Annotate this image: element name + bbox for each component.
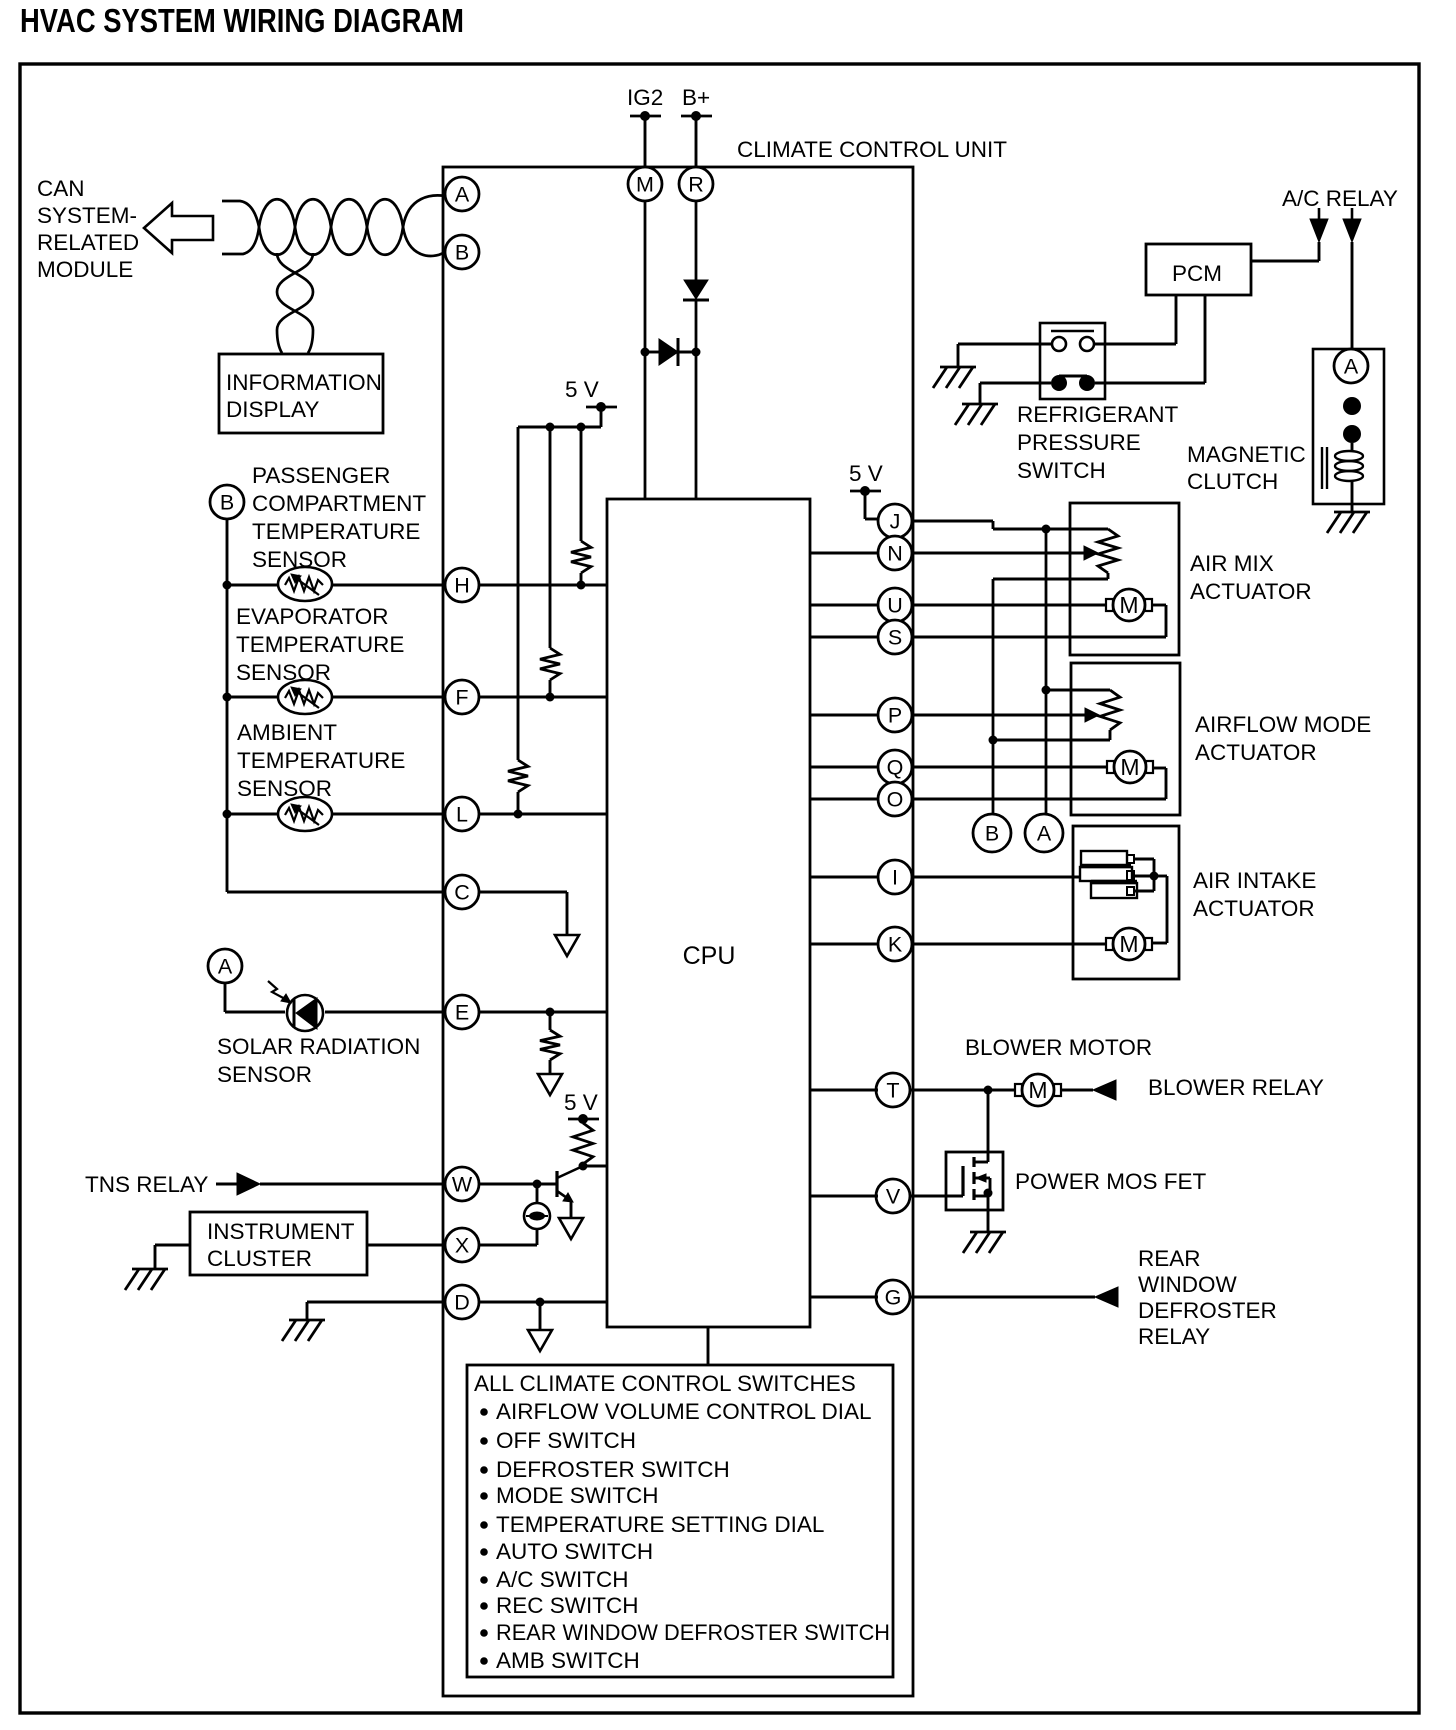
node collector xyxy=(579,1162,588,1171)
wire O to motor xyxy=(911,768,1166,799)
terminal 5V J xyxy=(850,486,881,496)
label INSTRUMENT CLUSTER xyxy=(207,1219,355,1271)
svg-text:B: B xyxy=(985,822,999,846)
svg-text:OFF SWITCH: OFF SWITCH xyxy=(496,1428,636,1453)
svg-text:D: D xyxy=(454,1291,470,1315)
wire sensor common xyxy=(226,519,229,892)
resistor pullup L xyxy=(508,760,528,792)
label MAGNETIC CLUTCH xyxy=(1187,442,1306,494)
wire B+ to R xyxy=(695,116,698,167)
label CPU xyxy=(683,942,736,970)
svg-text:PCM: PCM xyxy=(1172,261,1222,286)
label EVAPORATOR TEMPERATURE SENSOR xyxy=(236,604,404,685)
pin A can xyxy=(445,177,479,211)
arrow from blower relay xyxy=(1093,1080,1116,1100)
wire W to base xyxy=(479,1183,557,1186)
wire S to motor xyxy=(911,605,1166,637)
wire G to defroster relay xyxy=(911,1296,1095,1299)
pin A solar xyxy=(208,949,242,983)
svg-text:HVAC SYSTEM WIRING DIAGRAM: HVAC SYSTEM WIRING DIAGRAM xyxy=(20,2,464,39)
wire PCM to switch NC xyxy=(1204,295,1207,383)
airflow mode actuator box xyxy=(1071,663,1180,815)
switch list item DEFROSTER SWITCH xyxy=(480,1457,730,1482)
wire TNS to W xyxy=(260,1183,445,1186)
svg-text:TEMPERATURE: TEMPERATURE xyxy=(252,519,420,544)
wire A sense line xyxy=(1045,529,1048,814)
wire 5V to J xyxy=(865,491,878,519)
svg-text:B: B xyxy=(220,491,234,515)
wire Q to motor xyxy=(911,766,1107,769)
svg-text:BLOWER MOTOR: BLOWER MOTOR xyxy=(965,1035,1152,1060)
svg-text:C: C xyxy=(454,881,470,905)
svg-text:TEMPERATURE: TEMPERATURE xyxy=(237,748,405,773)
switch list item REC SWITCH xyxy=(480,1593,638,1618)
svg-text:E: E xyxy=(455,1001,469,1025)
wire pullup L to line xyxy=(514,792,523,819)
wire P wiper xyxy=(911,714,1086,717)
label AIRFLOW MODE ACTUATOR xyxy=(1195,712,1371,765)
svg-text:PRESSURE: PRESSURE xyxy=(1017,430,1141,455)
label BLOWER RELAY xyxy=(1148,1075,1324,1100)
label PCM xyxy=(1172,261,1222,286)
switch list item AIRFLOW VOLUME CONTROL DIAL xyxy=(480,1399,871,1424)
wire CPU to switches box xyxy=(707,1327,710,1365)
svg-text:M: M xyxy=(1119,592,1138,618)
pin V xyxy=(876,1179,910,1213)
pin A magnetic clutch xyxy=(1334,349,1368,383)
pin D xyxy=(445,1285,479,1319)
limit switch stack xyxy=(1080,851,1137,898)
svg-text:B: B xyxy=(455,241,469,265)
label IG2 xyxy=(627,85,663,110)
diode D1 down xyxy=(683,280,709,300)
switch list item REAR WINDOW DEFROSTER SWITCH xyxy=(480,1620,890,1645)
ground pressure switch 1 xyxy=(933,367,976,388)
svg-text:TEMPERATURE: TEMPERATURE xyxy=(236,632,404,657)
svg-text:POWER MOS FET: POWER MOS FET xyxy=(1015,1169,1207,1194)
switch list item AMB SWITCH xyxy=(480,1648,640,1673)
climate control switches box xyxy=(467,1365,893,1677)
label 5V transistor xyxy=(564,1090,598,1115)
ground instrument cluster xyxy=(125,1269,168,1290)
svg-text:INSTRUMENT: INSTRUMENT xyxy=(207,1219,355,1244)
wire CPU to V xyxy=(810,1195,878,1198)
potentiometer air mix xyxy=(1098,529,1118,579)
svg-text:J: J xyxy=(890,510,901,534)
resistor pullup F xyxy=(540,648,560,680)
pin F xyxy=(445,680,479,714)
switch list item A/C SWITCH xyxy=(480,1567,628,1592)
wire relay to PCM xyxy=(1251,242,1319,261)
label TNS RELAY xyxy=(85,1172,208,1197)
svg-text:SYSTEM-: SYSTEM- xyxy=(37,203,137,228)
ground pressure switch 2 xyxy=(955,404,998,425)
label INFORMATION DISPLAY xyxy=(226,370,382,422)
svg-text:M: M xyxy=(1028,1077,1047,1103)
wire airflow pot bottom xyxy=(993,739,1110,742)
svg-text:X: X xyxy=(455,1234,469,1258)
twisted pair to display xyxy=(277,253,313,353)
arrow P wiper xyxy=(1085,708,1099,722)
svg-text:B+: B+ xyxy=(682,85,710,110)
svg-text:REAR: REAR xyxy=(1138,1246,1201,1271)
wire J to air mix pot xyxy=(911,521,1108,529)
wire E pulldown to ground xyxy=(549,1060,552,1074)
thermistor ambient xyxy=(278,797,332,831)
svg-text:CLIMATE CONTROL UNIT: CLIMATE CONTROL UNIT xyxy=(737,137,1007,162)
svg-text:L: L xyxy=(456,803,468,827)
air intake actuator box xyxy=(1073,826,1179,979)
wire evaporator sensor to F xyxy=(227,696,445,699)
arrow from TNS relay xyxy=(216,1173,260,1195)
pin B actuator xyxy=(973,814,1011,852)
svg-text:A: A xyxy=(1344,355,1359,379)
svg-text:AMB SWITCH: AMB SWITCH xyxy=(496,1648,640,1673)
motor M air intake xyxy=(1106,928,1152,960)
pin B can xyxy=(445,235,479,269)
wire M line xyxy=(644,201,647,499)
air mix actuator box xyxy=(1070,503,1179,655)
svg-text:ACTUATOR: ACTUATOR xyxy=(1193,896,1315,921)
node M-diode junction xyxy=(641,348,650,357)
wire switch bottom left xyxy=(980,383,1051,404)
pin Q xyxy=(878,750,912,784)
node A-line top xyxy=(1042,525,1051,534)
wire D to CPU xyxy=(479,1301,607,1304)
svg-text:TEMPERATURE SETTING DIAL: TEMPERATURE SETTING DIAL xyxy=(496,1512,824,1537)
wire common to C xyxy=(227,891,445,894)
wire CPU to P xyxy=(810,714,878,717)
wire switch bottom right xyxy=(1095,382,1205,385)
svg-text:SENSOR: SENSOR xyxy=(237,776,332,801)
wire T to blower motor xyxy=(911,1089,1014,1092)
svg-text:I: I xyxy=(892,866,898,890)
wire CPU to N xyxy=(810,552,878,555)
label SOLAR RADIATION SENSOR xyxy=(217,1034,420,1087)
diode D2 right xyxy=(659,338,678,366)
ground D triangle xyxy=(528,1330,552,1351)
svg-text:AIRFLOW MODE: AIRFLOW MODE xyxy=(1195,712,1371,737)
wire A branch to pot xyxy=(1046,689,1110,692)
svg-text:W: W xyxy=(452,1173,473,1197)
svg-text:MODULE: MODULE xyxy=(37,257,133,282)
wire blower to relay xyxy=(1061,1089,1093,1092)
svg-text:DISPLAY: DISPLAY xyxy=(226,397,319,422)
svg-text:INFORMATION: INFORMATION xyxy=(226,370,382,395)
svg-text:CLUTCH: CLUTCH xyxy=(1187,469,1278,494)
node E pulldown xyxy=(546,1008,555,1017)
pin C xyxy=(445,875,479,909)
wire E to CPU xyxy=(479,1011,607,1014)
wire diode to CPU xyxy=(695,300,698,499)
svg-text:REFRIGERANT: REFRIGERANT xyxy=(1017,402,1179,427)
pin I xyxy=(878,860,912,894)
arrow A/C relay left xyxy=(1310,208,1328,242)
svg-text:M: M xyxy=(636,173,654,197)
wire CPU to Q xyxy=(810,766,878,769)
arrow from defroster relay xyxy=(1095,1287,1118,1307)
switch list item MODE SWITCH xyxy=(480,1483,658,1508)
wire 5V rail xyxy=(518,407,601,427)
svg-text:A: A xyxy=(218,955,233,979)
pin O xyxy=(878,782,912,816)
wire CPU to I xyxy=(810,876,878,879)
svg-text:EVAPORATOR: EVAPORATOR xyxy=(236,604,389,629)
wire stack top contact xyxy=(1134,859,1154,891)
svg-text:V: V xyxy=(886,1185,901,1209)
node rail 550 xyxy=(546,423,555,432)
pin X xyxy=(445,1228,479,1262)
wire CPU to K xyxy=(810,943,878,946)
wire U to motor xyxy=(911,604,1106,607)
svg-text:M: M xyxy=(1119,931,1138,957)
svg-text:SWITCH: SWITCH xyxy=(1017,458,1106,483)
wire pullup L drop xyxy=(517,427,520,760)
node R-diode junction xyxy=(692,348,701,357)
svg-text:CLUSTER: CLUSTER xyxy=(207,1246,312,1271)
svg-text:O: O xyxy=(887,788,904,812)
wire D to ground xyxy=(307,1302,445,1320)
pin J xyxy=(878,504,912,538)
arrow N wiper xyxy=(1084,546,1098,560)
photodiode solar xyxy=(268,981,323,1031)
node stack common xyxy=(1150,872,1159,881)
climate control unit box xyxy=(443,167,913,1696)
svg-text:S: S xyxy=(888,626,902,650)
svg-text:MODE SWITCH: MODE SWITCH xyxy=(496,1483,659,1508)
svg-text:REC SWITCH: REC SWITCH xyxy=(496,1593,639,1618)
wire pullup H to line xyxy=(577,573,586,590)
svg-text:F: F xyxy=(455,686,468,710)
svg-text:ACTUATOR: ACTUATOR xyxy=(1195,740,1317,765)
wire H to CPU xyxy=(479,584,607,587)
wire D to triangle xyxy=(539,1302,542,1330)
wire FET source to ground xyxy=(987,1210,990,1232)
svg-text:N: N xyxy=(887,542,903,566)
pin R xyxy=(679,167,713,201)
wire K to motor xyxy=(911,943,1106,946)
wire switch top right xyxy=(1094,343,1176,346)
wire stack to motor xyxy=(1153,876,1167,943)
pin A actuator xyxy=(1025,814,1063,852)
svg-text:DEFROSTER SWITCH: DEFROSTER SWITCH xyxy=(496,1457,730,1482)
label A/C RELAY xyxy=(1282,186,1398,211)
wire cluster to X xyxy=(367,1244,445,1247)
motor M air mix xyxy=(1106,589,1152,621)
wire pullup H drop xyxy=(580,427,583,541)
wire CPU to U xyxy=(810,604,878,607)
switch list item OFF SWITCH xyxy=(480,1428,636,1453)
label AIR INTAKE ACTUATOR xyxy=(1193,868,1316,921)
twisted pair CAN bus xyxy=(222,195,445,256)
wire IG2 to M xyxy=(644,116,647,167)
wire collector to CPU xyxy=(583,1165,607,1168)
svg-text:ALL CLIMATE CONTROL SWITCHES: ALL CLIMATE CONTROL SWITCHES xyxy=(474,1371,856,1396)
pin B passenger sensor xyxy=(210,485,244,519)
pin U xyxy=(878,588,912,622)
svg-text:TNS RELAY: TNS RELAY xyxy=(85,1172,208,1197)
pin K xyxy=(878,927,912,961)
wire CPU to T xyxy=(810,1089,878,1092)
svg-text:U: U xyxy=(887,594,903,618)
wire passenger sensor to H xyxy=(227,584,445,587)
svg-text:K: K xyxy=(888,933,903,957)
wire CPU to O xyxy=(810,798,878,801)
instrument cluster box xyxy=(190,1212,367,1275)
ground magnetic clutch xyxy=(1327,512,1370,533)
svg-text:MAGNETIC: MAGNETIC xyxy=(1187,442,1306,467)
svg-text:REAR WINDOW DEFROSTER SWITCH: REAR WINDOW DEFROSTER SWITCH xyxy=(496,1620,890,1645)
svg-text:M: M xyxy=(1120,754,1139,780)
wire L to CPU xyxy=(479,813,607,816)
node rail 581 xyxy=(577,423,586,432)
power MOSFET Q2 xyxy=(946,1152,1003,1210)
wire V to gate xyxy=(911,1195,946,1198)
svg-text:5 V: 5 V xyxy=(564,1090,598,1115)
pin S xyxy=(878,620,912,654)
switch list item TEMPERATURE SETTING DIAL xyxy=(480,1512,824,1537)
label PASSENGER COMPARTMENT TEMPERATURE SENSOR xyxy=(252,463,426,572)
svg-text:P: P xyxy=(888,704,902,728)
refrigerant pressure switch xyxy=(1040,323,1105,399)
block arrow to CAN module xyxy=(144,203,213,253)
svg-text:Q: Q xyxy=(887,756,904,780)
wire bulb top xyxy=(536,1184,539,1203)
wire PCM to switch NO xyxy=(1175,295,1178,344)
wire B sense line xyxy=(992,579,995,814)
svg-text:A: A xyxy=(1037,822,1052,846)
wire bulb to X wire xyxy=(479,1229,537,1245)
ground E triangle xyxy=(538,1074,562,1095)
wire solar to E xyxy=(325,1011,445,1014)
wire R to diode xyxy=(695,201,698,280)
pin N xyxy=(878,536,912,570)
wire diode D2 anode xyxy=(645,351,659,354)
pin H xyxy=(445,568,479,602)
terminal 5V transistor xyxy=(568,1114,599,1124)
potentiometer airflow xyxy=(1100,690,1120,740)
title xyxy=(20,2,464,39)
svg-text:CPU: CPU xyxy=(683,942,736,970)
pin M xyxy=(628,167,662,201)
svg-text:H: H xyxy=(454,574,470,598)
motor M blower xyxy=(1015,1074,1061,1106)
terminal 5V rail xyxy=(586,402,617,412)
wire ambient sensor to L xyxy=(227,813,445,816)
CPU U1 box xyxy=(607,499,810,1327)
wire solar A xyxy=(225,983,285,1012)
svg-text:A/C SWITCH: A/C SWITCH xyxy=(496,1567,629,1592)
wire F to CPU xyxy=(479,696,607,699)
pin T xyxy=(876,1073,910,1107)
svg-text:AMBIENT: AMBIENT xyxy=(237,720,337,745)
label BLOWER MOTOR xyxy=(965,1035,1152,1060)
svg-text:RELATED: RELATED xyxy=(37,230,139,255)
node blower-FET xyxy=(984,1086,993,1095)
arrow A/C relay right xyxy=(1343,208,1361,242)
svg-text:DEFROSTER: DEFROSTER xyxy=(1138,1298,1277,1323)
wire diode D2 cathode xyxy=(678,351,696,354)
PCM box xyxy=(1146,244,1251,295)
label REFRIGERANT PRESSURE SWITCH xyxy=(1017,402,1179,483)
svg-text:CAN: CAN xyxy=(37,176,85,201)
wire pullup F drop xyxy=(549,427,552,648)
terminal IG2 xyxy=(630,111,661,121)
node bulb branch xyxy=(533,1180,542,1189)
wire clutch to ground xyxy=(1351,504,1354,512)
svg-text:BLOWER RELAY: BLOWER RELAY xyxy=(1148,1075,1324,1100)
svg-text:AUTO SWITCH: AUTO SWITCH xyxy=(496,1539,653,1564)
magnetic clutch box xyxy=(1313,349,1384,504)
wire pullup F to line xyxy=(546,680,555,702)
svg-text:T: T xyxy=(886,1079,899,1103)
node A-line branch xyxy=(1042,686,1051,695)
wire stack mid contact xyxy=(1134,875,1154,878)
bulb instrument illumination xyxy=(524,1203,550,1229)
resistor E pulldown xyxy=(540,1030,560,1060)
svg-text:AIR MIX: AIR MIX xyxy=(1190,551,1274,576)
wire E pulldown xyxy=(549,1012,552,1030)
transistor Q1 xyxy=(557,1166,583,1218)
terminal B+ xyxy=(681,111,712,121)
wire C to ground xyxy=(479,892,567,935)
label 5V J xyxy=(849,461,883,486)
label AIR MIX ACTUATOR xyxy=(1190,551,1312,604)
svg-text:R: R xyxy=(688,173,704,197)
svg-text:5 V: 5 V xyxy=(565,377,599,402)
label 5V pullup rail xyxy=(565,377,599,402)
svg-text:COMPARTMENT: COMPARTMENT xyxy=(252,491,426,516)
label AMBIENT TEMPERATURE SENSOR xyxy=(237,720,405,801)
wire blower to FET drain xyxy=(987,1090,990,1152)
node L branch xyxy=(223,810,232,819)
thermistor evaporator xyxy=(278,680,332,714)
node F branch xyxy=(223,693,232,702)
switch list item AUTO SWITCH xyxy=(480,1539,653,1564)
svg-text:ACTUATOR: ACTUATOR xyxy=(1190,579,1312,604)
ground emitter triangle xyxy=(559,1218,583,1239)
ground D xyxy=(282,1320,325,1341)
clutch coil xyxy=(1322,443,1363,504)
svg-text:IG2: IG2 xyxy=(627,85,663,110)
wire air mix pot bottom xyxy=(993,578,1108,581)
label B+ xyxy=(682,85,710,110)
svg-text:AIRFLOW VOLUME CONTROL DIAL: AIRFLOW VOLUME CONTROL DIAL xyxy=(496,1399,871,1424)
pin G xyxy=(876,1280,910,1314)
pin W xyxy=(445,1167,479,1201)
wire cluster to ground xyxy=(155,1245,190,1269)
wire CPU to G xyxy=(810,1296,878,1299)
svg-text:WINDOW: WINDOW xyxy=(1138,1272,1237,1297)
resistor pullup H xyxy=(571,541,591,573)
wire switch top left xyxy=(958,344,1052,367)
wire CPU to S xyxy=(810,636,878,639)
svg-text:5 V: 5 V xyxy=(849,461,883,486)
label REAR WINDOW DEFROSTER RELAY xyxy=(1138,1246,1277,1349)
node H branch xyxy=(223,581,232,590)
svg-text:A: A xyxy=(455,183,470,207)
ground C triangle xyxy=(555,935,579,956)
thermistor passenger xyxy=(278,567,332,601)
label POWER MOS FET xyxy=(1015,1169,1207,1194)
pin E xyxy=(445,995,479,1029)
information display box xyxy=(219,354,383,433)
pin L xyxy=(445,797,479,831)
svg-text:G: G xyxy=(885,1286,902,1310)
label ALL CLIMATE CONTROL SWITCHES xyxy=(474,1371,856,1396)
node D pulldown xyxy=(536,1298,545,1307)
svg-text:A/C RELAY: A/C RELAY xyxy=(1282,186,1398,211)
